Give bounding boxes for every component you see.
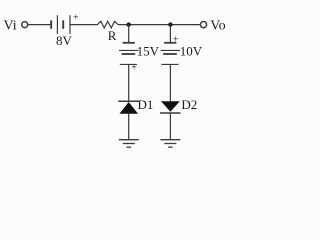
wire node B down to battery 10V: [169, 25, 171, 42]
svg-text:8V: 8V: [56, 33, 73, 48]
wire Vi to battery: [28, 24, 51, 26]
wire node A down to battery 15V: [128, 25, 130, 42]
svg-text:D1: D1: [138, 97, 154, 112]
svg-text:+: +: [131, 63, 137, 74]
svg-text:+: +: [73, 12, 79, 23]
wire battery 15V to diode D1: [128, 64, 130, 101]
wire D1 to ground: [128, 114, 130, 140]
svg-text:R: R: [108, 28, 117, 43]
battery 15V: [119, 43, 138, 65]
diode D1: [118, 101, 139, 113]
svg-text:Vo: Vo: [210, 19, 225, 34]
wire D2 to ground: [169, 113, 171, 140]
resistor R: [98, 21, 119, 28]
svg-text:Vi: Vi: [4, 19, 17, 34]
terminal Vo: [200, 22, 206, 28]
battery 8V: [51, 15, 70, 34]
wire battery 10V to diode D2: [169, 64, 171, 101]
terminal Vi: [22, 22, 28, 28]
diode D2: [160, 101, 181, 113]
svg-text:15V: 15V: [137, 43, 160, 58]
wire battery to resistor: [70, 24, 98, 26]
wire resistor to Vo terminal: [118, 24, 200, 26]
battery 10V: [161, 43, 180, 65]
junction node B: [168, 22, 172, 26]
svg-text:+: +: [173, 34, 179, 45]
junction node A: [127, 22, 131, 26]
svg-text:10V: 10V: [180, 43, 203, 58]
ground left: [119, 140, 139, 148]
ground right: [160, 140, 180, 148]
svg-text:D2: D2: [181, 97, 197, 112]
